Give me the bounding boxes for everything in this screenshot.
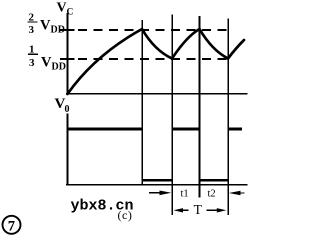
bottom chart V axis	[67, 114, 69, 186]
label V_C (top axis label)	[57, 1, 74, 18]
svg-text:V: V	[41, 55, 52, 71]
dashed threshold line 1/3 VDD	[78, 58, 228, 60]
vertical reference line at second valley	[227, 19, 229, 216]
top chart V axis	[67, 13, 69, 95]
top chart time axis	[66, 93, 248, 95]
svg-text:3: 3	[29, 57, 35, 69]
output low segment 2	[200, 179, 229, 181]
svg-text:DD: DD	[52, 62, 66, 73]
svg-text:V: V	[40, 18, 51, 34]
T dimension right arrow	[207, 208, 227, 212]
svg-text:V: V	[57, 1, 67, 16]
t2 right outside arrow	[229, 191, 245, 196]
capacitor voltage waveform Vc	[68, 29, 245, 94]
vertical reference line at second peak	[199, 16, 201, 198]
circled figure number 7	[3, 216, 21, 235]
T dimension left arrow	[174, 208, 189, 212]
tick 2/3 on V axis	[60, 29, 75, 31]
output low segment 1	[142, 179, 172, 181]
svg-text:T: T	[194, 202, 203, 217]
output high segment 3	[228, 127, 242, 130]
label 2/3 VDD	[28, 12, 65, 37]
output high segment 1	[69, 127, 144, 130]
svg-text:0: 0	[65, 104, 70, 115]
svg-text:ybx8.cn: ybx8.cn	[71, 198, 134, 215]
label 1/3 VDD	[28, 44, 66, 73]
svg-text:t2: t2	[208, 189, 216, 200]
t1 left outside arrow	[149, 191, 171, 196]
bottom chart time axis	[66, 184, 248, 186]
label V_0 (bottom axis label)	[55, 96, 70, 115]
output high segment 2	[172, 127, 200, 130]
tick 1/3 on V axis	[60, 58, 75, 60]
svg-text:t1: t1	[181, 189, 189, 200]
svg-text:3: 3	[29, 24, 35, 36]
svg-text:7: 7	[8, 219, 15, 235]
vertical reference line at first valley	[171, 15, 173, 216]
dashed threshold line 2/3 VDD	[78, 29, 228, 31]
vertical reference line at first peak	[141, 20, 143, 186]
